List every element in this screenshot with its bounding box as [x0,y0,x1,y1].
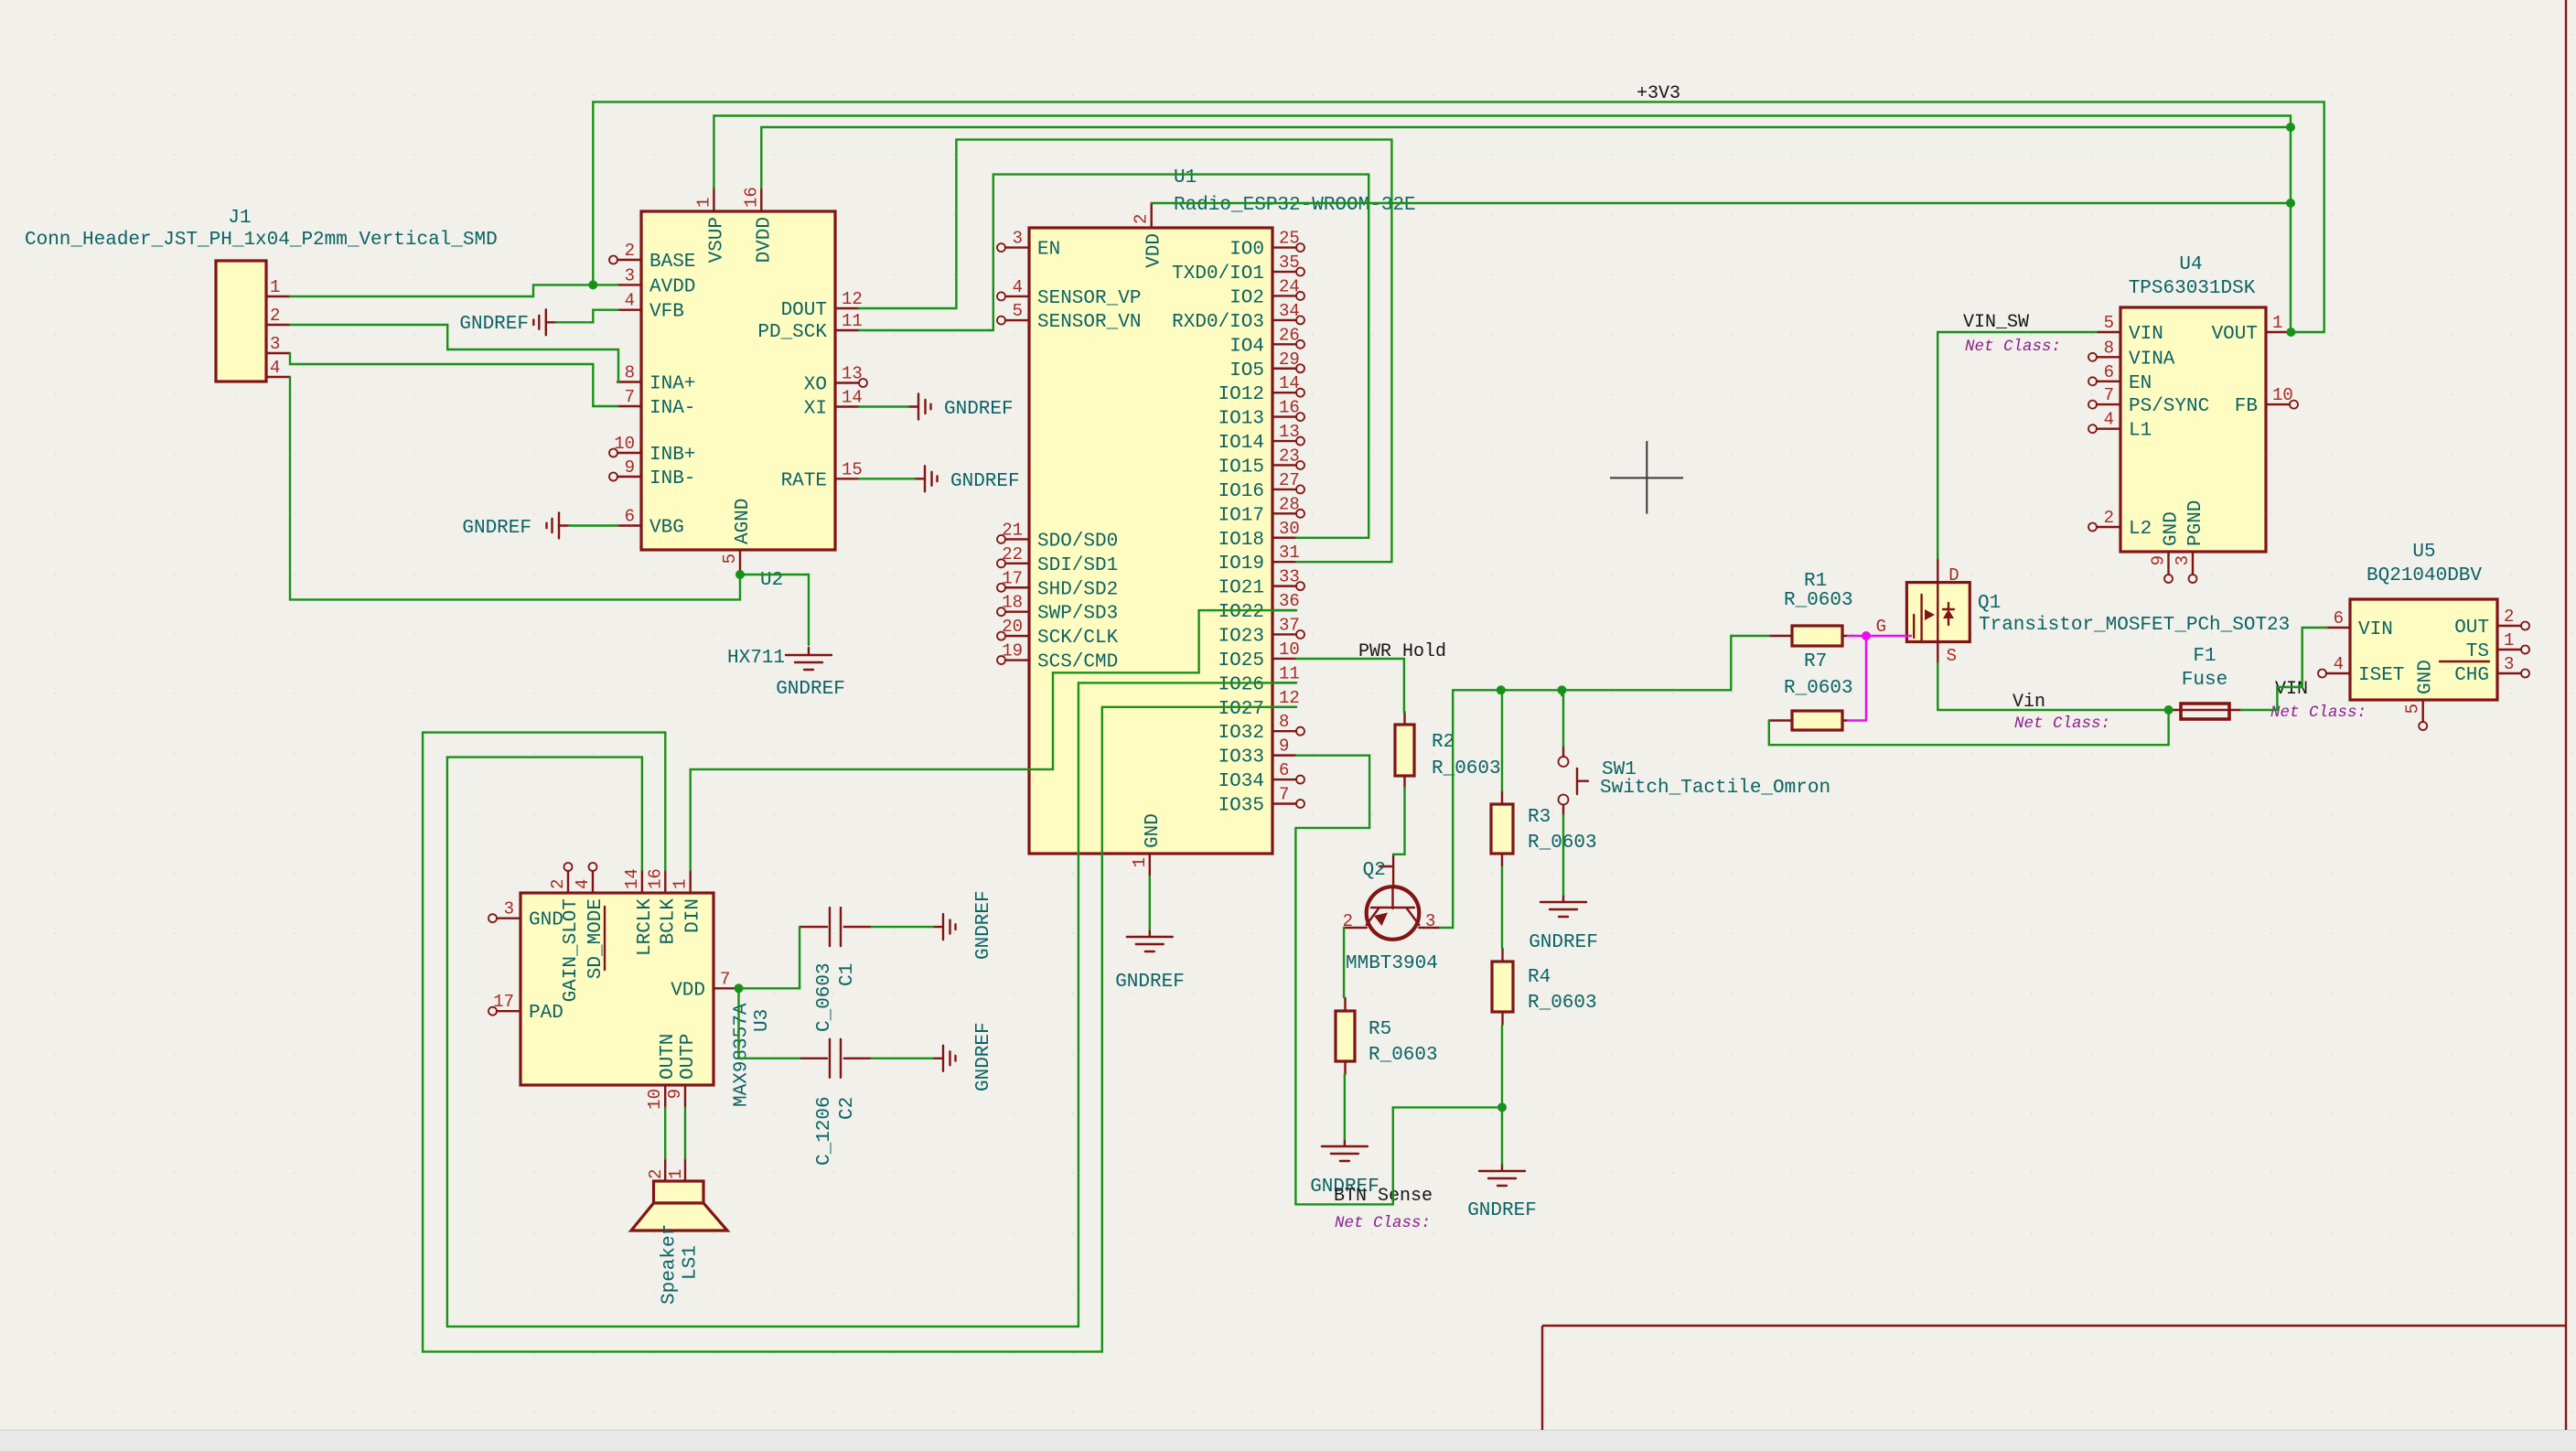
svg-text:LRCLK: LRCLK [635,898,656,956]
svg-text:IO14: IO14 [1218,433,1264,454]
svg-text:SDO/SD0: SDO/SD0 [1037,531,1118,552]
svg-text:Fuse: Fuse [2182,670,2227,691]
svg-text:1: 1 [270,277,280,297]
svg-text:MMBT3904: MMBT3904 [1346,953,1438,974]
svg-text:4: 4 [270,358,280,378]
svg-text:36: 36 [1279,591,1300,611]
svg-text:INA-: INA- [649,398,695,419]
svg-text:R7: R7 [1804,651,1827,672]
svg-text:3: 3 [270,334,280,354]
svg-text:27: 27 [1279,470,1300,490]
svg-text:VFB: VFB [649,302,684,323]
svg-text:BASE: BASE [649,252,695,273]
svg-text:16: 16 [741,187,761,208]
svg-text:16: 16 [645,868,665,889]
svg-text:BCLK: BCLK [658,898,679,945]
svg-text:R1: R1 [1804,571,1827,592]
svg-text:IO18: IO18 [1218,530,1264,551]
svg-text:G: G [1876,617,1886,637]
svg-text:VINA: VINA [2129,349,2175,370]
svg-text:IO27: IO27 [1218,699,1264,720]
svg-text:6: 6 [2104,362,2114,382]
svg-text:IO34: IO34 [1218,771,1264,792]
svg-text:RATE: RATE [781,470,827,491]
svg-text:2: 2 [625,241,635,261]
svg-text:U3: U3 [752,1009,773,1032]
svg-text:GNDREF: GNDREF [459,314,529,335]
svg-text:4: 4 [2104,410,2114,430]
svg-text:6: 6 [625,507,635,527]
svg-text:PD_SCK: PD_SCK [757,322,827,343]
svg-text:AGND: AGND [733,499,754,544]
svg-text:2: 2 [270,306,280,326]
svg-text:IO23: IO23 [1218,626,1264,647]
svg-text:R_0603: R_0603 [1784,590,1853,611]
svg-text:4: 4 [625,291,635,311]
svg-text:OUTP: OUTP [678,1034,699,1080]
svg-text:14: 14 [622,868,642,889]
svg-text:7: 7 [625,387,635,407]
svg-text:5: 5 [2403,704,2423,714]
svg-text:PGND: PGND [2185,500,2206,546]
svg-text:GND: GND [2416,660,2437,694]
svg-text:13: 13 [1279,422,1300,442]
svg-text:L2: L2 [2129,519,2152,540]
svg-text:INA+: INA+ [649,374,695,395]
svg-text:15: 15 [842,459,863,479]
svg-text:C1: C1 [837,963,858,986]
svg-text:2: 2 [1132,214,1152,224]
svg-text:OUTN: OUTN [658,1034,679,1080]
svg-text:13: 13 [842,364,863,384]
svg-text:SENSOR_VP: SENSOR_VP [1037,288,1141,309]
svg-text:IO0: IO0 [1229,240,1264,261]
svg-text:DIN: DIN [683,898,704,933]
svg-text:2: 2 [2504,607,2514,627]
svg-text:R_0603: R_0603 [1784,678,1853,699]
svg-text:34: 34 [1279,301,1300,321]
svg-text:IO22: IO22 [1218,602,1264,623]
svg-text:IO15: IO15 [1218,457,1264,478]
svg-text:5: 5 [2104,313,2114,333]
svg-text:SHD/SD2: SHD/SD2 [1037,579,1118,600]
svg-text:GND: GND [1143,813,1164,848]
svg-text:16: 16 [1279,398,1300,418]
svg-text:9: 9 [1279,736,1289,757]
svg-text:Q1: Q1 [1978,593,2001,614]
svg-text:SDI/SD1: SDI/SD1 [1037,555,1118,576]
svg-text:14: 14 [842,388,863,408]
svg-text:7: 7 [1279,784,1289,804]
svg-text:17: 17 [493,992,514,1012]
svg-text:C_1206: C_1206 [814,1096,835,1166]
svg-text:GNDREF: GNDREF [973,890,994,960]
svg-text:Net Class:: Net Class: [2270,704,2367,722]
svg-text:Net Class:: Net Class: [2014,715,2110,733]
svg-text:1: 1 [693,198,714,208]
svg-text:DVDD: DVDD [754,217,775,263]
svg-text:LS1: LS1 [681,1245,702,1280]
svg-text:U2: U2 [760,570,783,591]
svg-text:IO12: IO12 [1218,384,1264,405]
svg-text:Net Class:: Net Class: [1965,338,2061,356]
svg-text:Q2: Q2 [1363,860,1386,881]
svg-text:3: 3 [625,265,635,285]
svg-text:GNDREF: GNDREF [950,471,1020,492]
svg-text:INB+: INB+ [649,445,695,466]
svg-text:VBG: VBG [649,518,684,539]
svg-text:TS: TS [2466,641,2489,662]
svg-text:1: 1 [666,1169,686,1179]
svg-text:18: 18 [1002,593,1023,613]
svg-text:9: 9 [665,1089,685,1099]
svg-text:DOUT: DOUT [781,300,827,321]
svg-text:7: 7 [2104,385,2114,405]
svg-text:IO16: IO16 [1218,481,1264,502]
svg-text:R2: R2 [1432,732,1454,753]
svg-text:BQ21040DBV: BQ21040DBV [2367,565,2482,586]
svg-text:23: 23 [1279,446,1300,466]
svg-text:10: 10 [1279,640,1300,660]
svg-text:EN: EN [2129,373,2152,394]
svg-text:1: 1 [671,879,691,889]
svg-text:9: 9 [2149,555,2169,565]
svg-text:Transistor_MOSFET_PCh_SOT23: Transistor_MOSFET_PCh_SOT23 [1979,615,2290,636]
svg-text:22: 22 [1002,544,1023,564]
svg-text:IO13: IO13 [1218,409,1264,430]
svg-text:35: 35 [1279,253,1300,273]
svg-text:R3: R3 [1528,807,1551,828]
svg-text:14: 14 [1279,373,1300,393]
svg-text:XO: XO [804,375,827,396]
svg-text:GND: GND [2162,511,2183,546]
svg-text:12: 12 [1279,688,1300,708]
svg-text:FB: FB [2235,396,2258,417]
svg-text:1: 1 [2504,630,2514,650]
svg-text:SWP/SD3: SWP/SD3 [1037,604,1118,625]
svg-text:GNDREF: GNDREF [1115,972,1185,993]
svg-text:U1: U1 [1174,167,1197,188]
svg-text:25: 25 [1279,229,1300,249]
svg-text:6: 6 [1279,760,1289,780]
svg-text:10: 10 [614,434,635,454]
svg-text:2: 2 [646,1169,666,1179]
svg-text:17: 17 [1002,568,1023,588]
svg-text:U4: U4 [2179,254,2202,275]
svg-text:Switch_Tactile_Omron: Switch_Tactile_Omron [1600,778,1830,799]
svg-text:HX711: HX711 [727,648,785,669]
svg-text:21: 21 [1002,520,1023,540]
svg-text:24: 24 [1279,276,1300,296]
svg-text:GNDREF: GNDREF [1529,932,1598,953]
svg-text:GNDREF: GNDREF [776,679,845,700]
svg-text:IO35: IO35 [1218,795,1264,816]
svg-text:R_0603: R_0603 [1432,758,1501,779]
svg-text:Net Class:: Net Class: [1335,1214,1431,1232]
svg-text:R5: R5 [1368,1019,1391,1040]
svg-text:7: 7 [720,969,730,989]
svg-text:VSUP: VSUP [706,217,727,263]
svg-text:GNDREF: GNDREF [973,1022,994,1091]
svg-text:D: D [1948,565,1959,586]
svg-text:VDD: VDD [1144,233,1165,268]
svg-text:8: 8 [1279,712,1289,732]
svg-text:S: S [1947,646,1957,666]
svg-text:29: 29 [1279,349,1300,370]
svg-text:GNDREF: GNDREF [462,518,531,539]
svg-text:J1: J1 [228,208,251,229]
svg-text:CHG: CHG [2454,665,2489,686]
svg-text:4: 4 [2334,654,2344,674]
svg-text:IO32: IO32 [1218,723,1264,744]
svg-text:3: 3 [504,899,514,919]
svg-text:GAIN_SLOT: GAIN_SLOT [561,898,582,1002]
svg-text:TXD0/IO1: TXD0/IO1 [1172,263,1264,285]
svg-text:31: 31 [1279,543,1300,563]
svg-text:1: 1 [1130,857,1150,867]
svg-text:C_0603: C_0603 [814,962,835,1032]
svg-text:2: 2 [2104,508,2114,528]
svg-text:XI: XI [804,399,827,420]
svg-text:11: 11 [842,311,863,331]
svg-text:GND: GND [529,910,563,931]
svg-text:AVDD: AVDD [649,276,695,297]
svg-text:U5: U5 [2412,542,2435,563]
svg-text:5: 5 [1013,301,1023,321]
svg-text:SCK/CLK: SCK/CLK [1037,628,1119,649]
svg-text:3: 3 [1013,229,1023,249]
svg-text:PS/SYNC: PS/SYNC [2129,396,2209,417]
svg-text:SD_MODE: SD_MODE [585,898,606,979]
svg-text:12: 12 [842,289,863,309]
svg-text:4: 4 [1013,277,1023,297]
svg-text:6: 6 [2334,608,2344,629]
svg-text:SENSOR_VN: SENSOR_VN [1037,312,1141,333]
svg-text:IO17: IO17 [1218,505,1264,526]
svg-text:VIN_SW: VIN_SW [1963,312,2029,333]
svg-text:R4: R4 [1528,967,1551,988]
svg-text:SCS/CMD: SCS/CMD [1037,652,1118,673]
svg-text:30: 30 [1279,519,1300,539]
svg-text:VOUT: VOUT [2212,324,2258,345]
svg-text:MAX98357A: MAX98357A [732,1003,753,1107]
svg-text:20: 20 [1002,617,1023,637]
svg-text:TPS63031DSK: TPS63031DSK [2129,278,2256,299]
svg-text:26: 26 [1279,325,1300,345]
svg-text:3: 3 [1425,911,1435,931]
svg-text:VDD: VDD [671,980,705,1001]
svg-text:IO19: IO19 [1218,554,1264,575]
svg-text:PAD: PAD [529,1003,563,1024]
svg-text:9: 9 [625,457,635,478]
svg-text:VIN: VIN [2358,619,2393,640]
svg-text:GNDREF: GNDREF [944,399,1014,420]
svg-text:IO5: IO5 [1229,360,1264,382]
svg-text:OUT: OUT [2454,618,2489,639]
svg-text:Speaker: Speaker [660,1224,681,1305]
svg-text:EN: EN [1037,240,1060,261]
svg-text:IO25: IO25 [1218,650,1264,672]
svg-text:11: 11 [1279,663,1300,683]
svg-text:8: 8 [2104,338,2114,358]
svg-text:IO21: IO21 [1218,578,1264,599]
svg-text:19: 19 [1002,641,1023,661]
svg-text:10: 10 [645,1089,665,1110]
svg-text:R_0603: R_0603 [1528,993,1597,1014]
svg-text:Conn_Header_JST_PH_1x04_P2mm_V: Conn_Header_JST_PH_1x04_P2mm_Vertical_SM… [25,230,498,251]
svg-text:L1: L1 [2129,421,2152,442]
svg-text:3: 3 [2504,654,2514,674]
svg-text:VIN: VIN [2129,324,2163,345]
svg-text:IO26: IO26 [1218,674,1264,695]
svg-text:F1: F1 [2193,646,2216,667]
svg-text:GNDREF: GNDREF [1467,1200,1537,1221]
svg-text:37: 37 [1279,615,1300,635]
svg-text:28: 28 [1279,494,1300,514]
svg-text:INB-: INB- [649,468,695,489]
svg-text:5: 5 [720,554,740,564]
svg-text:33: 33 [1279,567,1300,587]
svg-text:ISET: ISET [2358,665,2404,686]
svg-text:1: 1 [2272,313,2282,333]
svg-text:4: 4 [573,879,593,889]
svg-text:RXD0/IO3: RXD0/IO3 [1172,312,1264,333]
svg-text:R_0603: R_0603 [1368,1045,1438,1066]
svg-text:IO2: IO2 [1229,287,1264,308]
svg-text:3: 3 [2173,555,2193,565]
svg-text:IO4: IO4 [1229,336,1264,357]
svg-text:Radio_ESP32-WROOM-32E: Radio_ESP32-WROOM-32E [1174,195,1416,216]
svg-text:C2: C2 [837,1097,858,1120]
svg-text:8: 8 [625,363,635,383]
svg-text:IO33: IO33 [1218,747,1264,768]
svg-text:2: 2 [548,879,568,889]
svg-text:10: 10 [2272,385,2293,405]
